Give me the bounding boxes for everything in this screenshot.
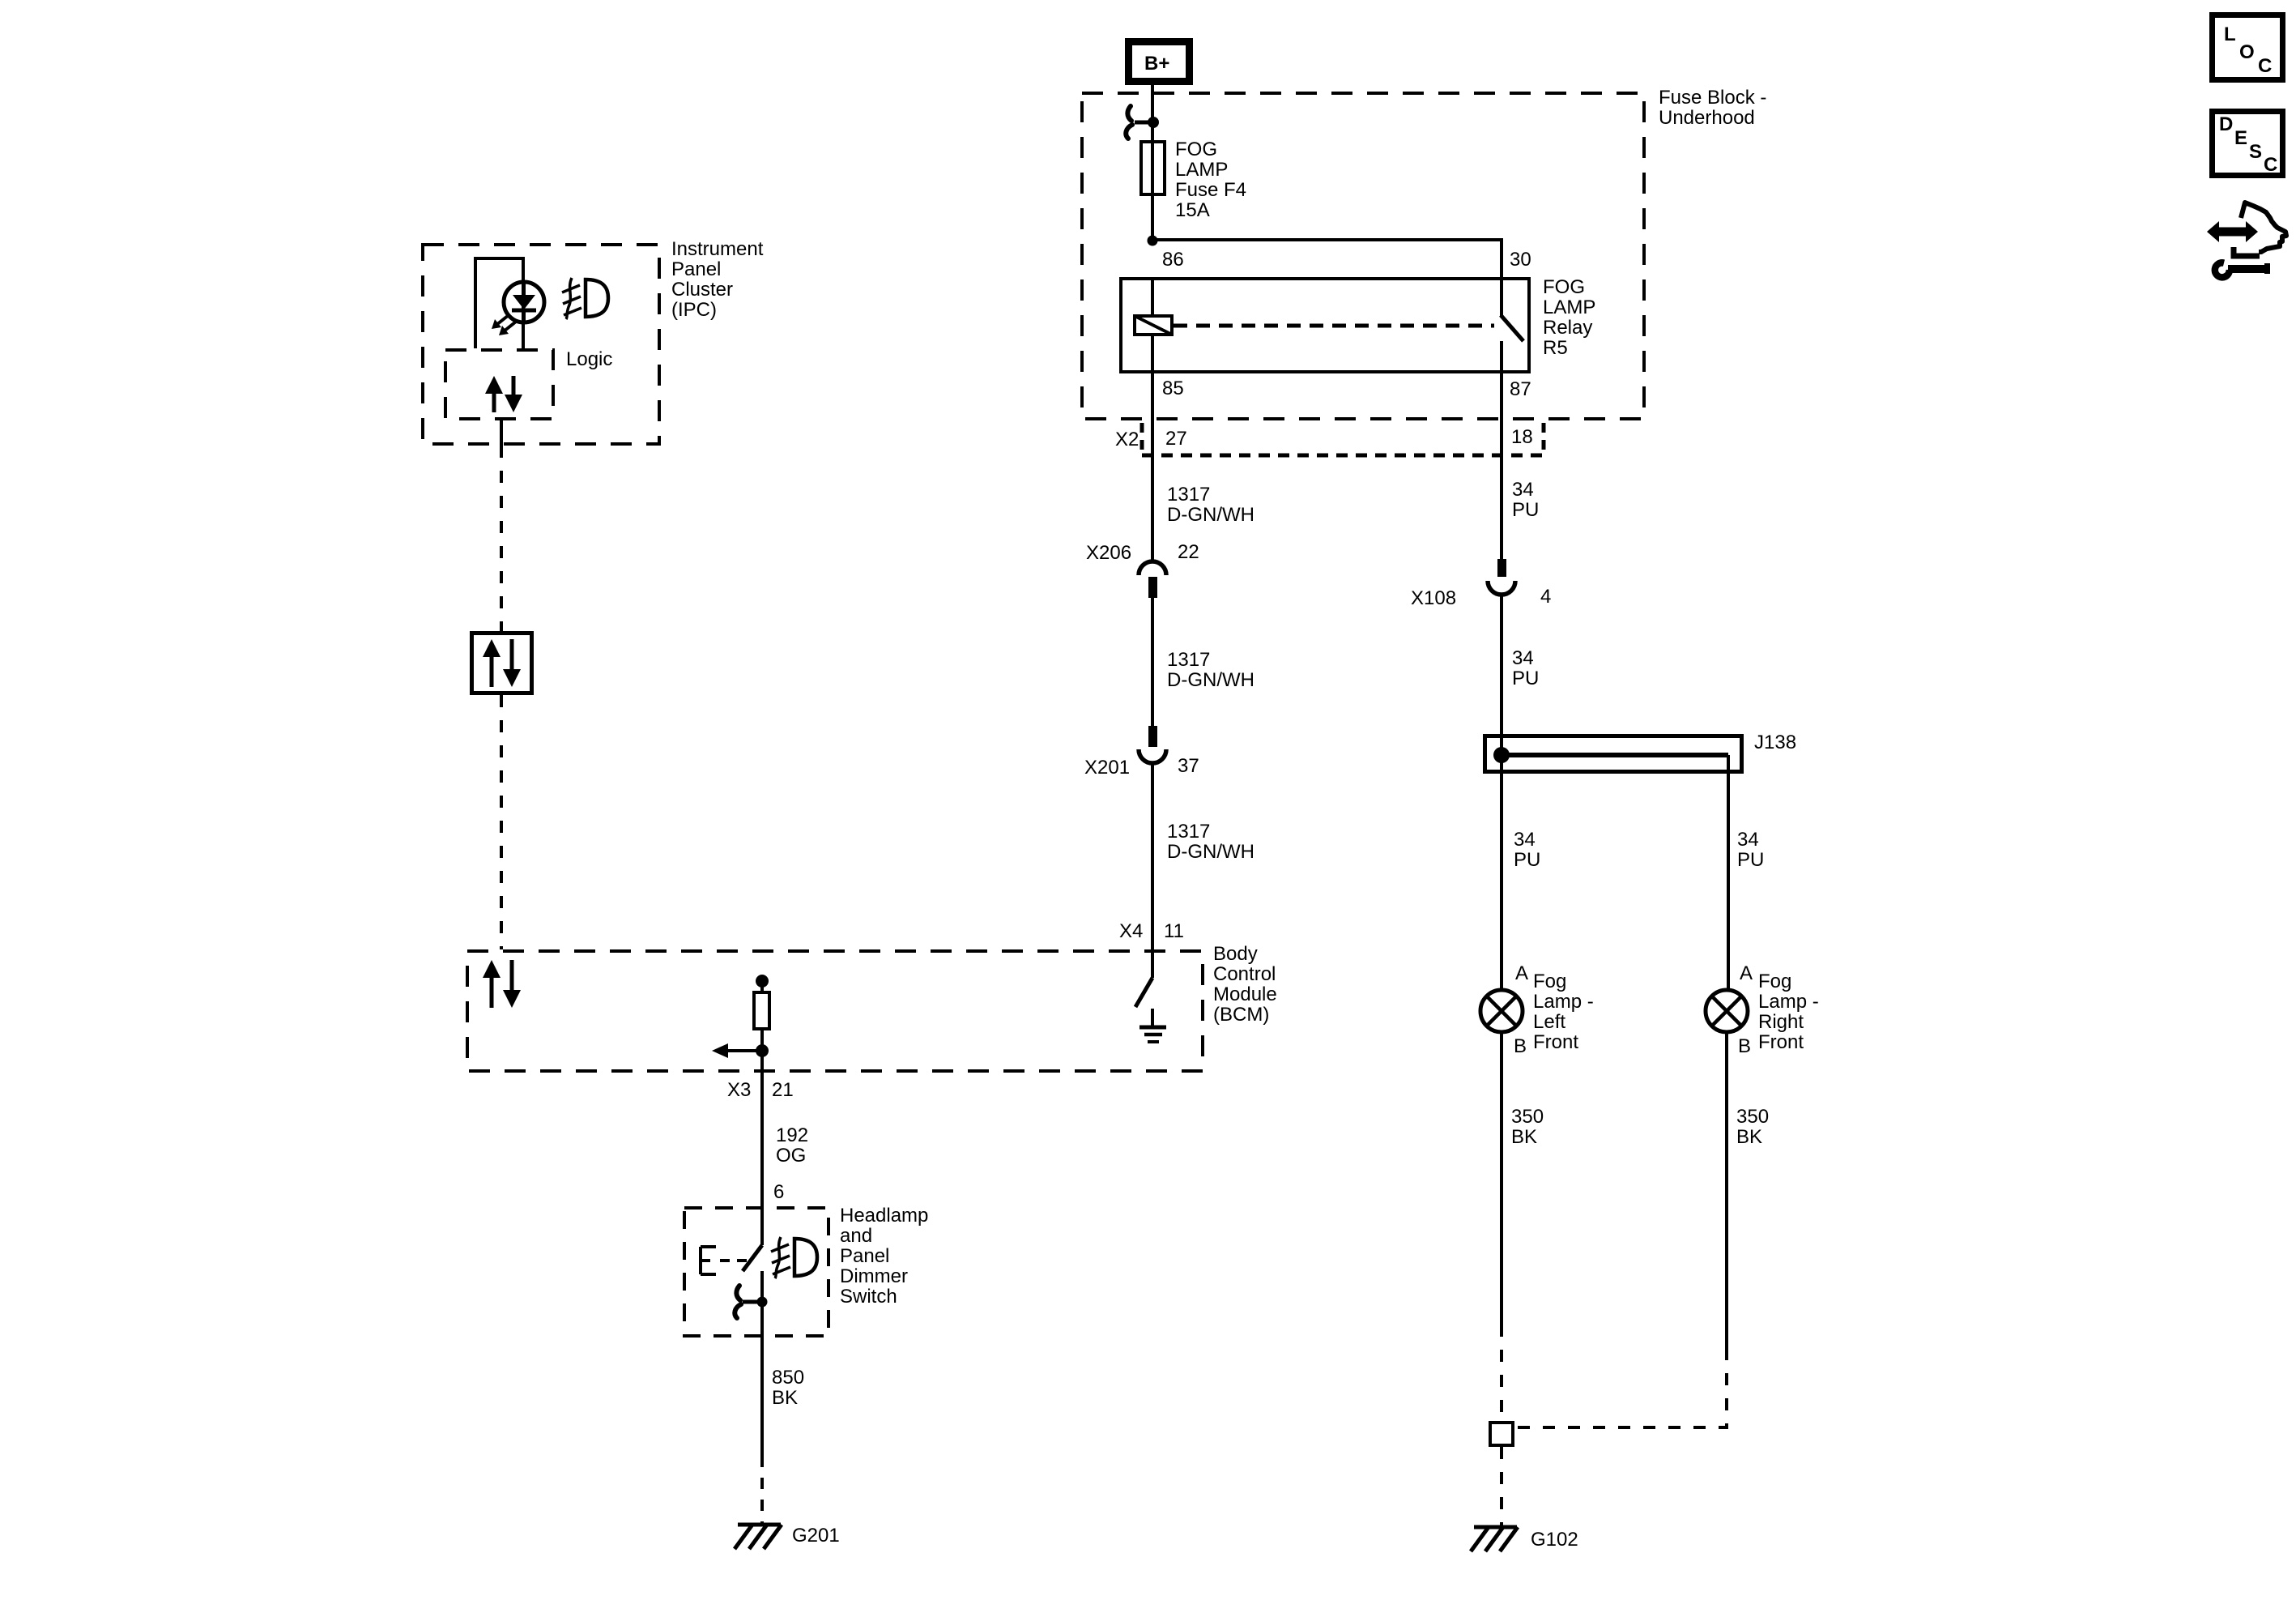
svg-text:Lamp -: Lamp - bbox=[1758, 991, 1819, 1013]
svg-text:Cluster: Cluster bbox=[671, 279, 733, 301]
BCM label bbox=[1213, 943, 1277, 1026]
wire J138 to right fog lamp bbox=[1727, 755, 1730, 991]
svg-text:Front: Front bbox=[1533, 1031, 1578, 1053]
svg-text:BK: BK bbox=[772, 1387, 798, 1409]
wire label 34 PU (1) bbox=[1512, 479, 1539, 521]
serial data arrows inside BCM bbox=[483, 960, 521, 1008]
Fog Lamp - Right Front bbox=[1706, 990, 1748, 1032]
wire label 1317 D-GN/WH (1) bbox=[1167, 484, 1254, 526]
svg-text:OG: OG bbox=[776, 1145, 806, 1167]
svg-text:37: 37 bbox=[1178, 755, 1199, 777]
left fog lamp label bbox=[1533, 971, 1594, 1053]
svg-text:D-GN/WH: D-GN/WH bbox=[1167, 669, 1254, 691]
svg-text:Fog: Fog bbox=[1533, 971, 1566, 992]
wire BCM X3-21 to dimmer switch bbox=[760, 1073, 764, 1245]
svg-text:30: 30 bbox=[1510, 249, 1531, 271]
fuse FOG LAMP Fuse F4 15A bbox=[1141, 140, 1165, 241]
wire to relay pin 30 bbox=[1152, 240, 1502, 279]
svg-text:Instrument: Instrument bbox=[671, 238, 764, 260]
svg-text:FOG: FOG bbox=[1175, 139, 1217, 160]
svg-text:PU: PU bbox=[1514, 849, 1540, 871]
svg-text:X201: X201 bbox=[1084, 757, 1130, 779]
svg-text:D: D bbox=[2219, 113, 2233, 135]
svg-text:Fuse F4: Fuse F4 bbox=[1175, 179, 1246, 201]
svg-text:LAMP: LAMP bbox=[1175, 159, 1228, 181]
LOC navigation box bbox=[2213, 15, 2283, 80]
dimmer switch label bbox=[840, 1205, 928, 1308]
svg-text:Fuse Block -: Fuse Block - bbox=[1659, 87, 1766, 109]
dashed wire to G201 bbox=[760, 1456, 764, 1526]
wire J138 to left fog lamp bbox=[1500, 755, 1503, 991]
svg-text:Panel: Panel bbox=[671, 258, 721, 280]
svg-text:1317: 1317 bbox=[1167, 484, 1210, 506]
svg-text:1317: 1317 bbox=[1167, 821, 1210, 843]
wire dimmer to G201 bbox=[760, 1338, 764, 1456]
svg-text:6: 6 bbox=[773, 1181, 784, 1203]
wire pin 85 to X2-27 bbox=[1151, 372, 1154, 561]
fog lamp indicator icon (IPC) bbox=[562, 278, 608, 319]
DESC navigation box bbox=[2213, 112, 2283, 177]
svg-text:G102: G102 bbox=[1531, 1529, 1578, 1551]
svg-text:27: 27 bbox=[1165, 428, 1187, 450]
dashed wire right lamp to splice bbox=[1514, 1348, 1727, 1427]
svg-text:BK: BK bbox=[1736, 1126, 1762, 1148]
svg-text:C: C bbox=[2258, 55, 2272, 77]
svg-text:L: L bbox=[2224, 23, 2236, 45]
svg-text:Underhood: Underhood bbox=[1659, 107, 1755, 129]
svg-text:Dimmer: Dimmer bbox=[840, 1265, 908, 1287]
Fuse Block - Underhood dashed box bbox=[1082, 93, 1644, 419]
bus tap symbol bbox=[1126, 106, 1159, 139]
svg-text:15A: 15A bbox=[1175, 199, 1210, 221]
wire label 34 PU (left) bbox=[1514, 829, 1540, 871]
wire label 1317 D-GN/WH (2) bbox=[1167, 649, 1254, 691]
relay contact switch bbox=[1501, 279, 1523, 372]
ground G201 bbox=[735, 1525, 782, 1549]
relay label bbox=[1543, 276, 1595, 359]
svg-text:BK: BK bbox=[1511, 1126, 1537, 1148]
svg-text:850: 850 bbox=[772, 1367, 804, 1389]
svg-text:18: 18 bbox=[1511, 426, 1533, 448]
svg-text:D-GN/WH: D-GN/WH bbox=[1167, 504, 1254, 526]
svg-text:X4: X4 bbox=[1119, 920, 1143, 942]
wire label 34 PU (2) bbox=[1512, 647, 1539, 689]
svg-text:X2: X2 bbox=[1115, 429, 1139, 450]
svg-text:11: 11 bbox=[1164, 920, 1184, 942]
Instrument Panel Cluster (IPC) dashed box bbox=[423, 245, 659, 444]
svg-text:87: 87 bbox=[1510, 378, 1531, 400]
svg-text:S: S bbox=[2249, 141, 2262, 163]
svg-text:22: 22 bbox=[1178, 541, 1199, 563]
svg-text:Switch: Switch bbox=[840, 1286, 897, 1308]
svg-text:PU: PU bbox=[1512, 499, 1539, 521]
serial data arrows in connector box bbox=[483, 639, 521, 687]
IPC label bbox=[671, 238, 764, 321]
service navigation icon (car with arrow and wrench) bbox=[2207, 203, 2286, 277]
wire label 1317 D-GN/WH (3) bbox=[1167, 821, 1254, 863]
svg-text:LAMP: LAMP bbox=[1543, 297, 1595, 318]
svg-text:D-GN/WH: D-GN/WH bbox=[1167, 841, 1254, 863]
svg-text:21: 21 bbox=[772, 1079, 794, 1101]
Fuse Block label bbox=[1659, 87, 1766, 129]
svg-text:34: 34 bbox=[1514, 829, 1536, 851]
wire label 850 BK bbox=[772, 1367, 804, 1409]
svg-text:34: 34 bbox=[1737, 829, 1759, 851]
svg-text:Panel: Panel bbox=[840, 1245, 889, 1267]
svg-text:B: B bbox=[1514, 1035, 1527, 1057]
wire label 192 OG bbox=[776, 1124, 808, 1167]
svg-text:350: 350 bbox=[1511, 1106, 1544, 1128]
svg-text:Module: Module bbox=[1213, 983, 1277, 1005]
relay box FOG LAMP Relay R5 bbox=[1121, 279, 1529, 372]
Logic dashed box bbox=[445, 350, 553, 419]
svg-text:34: 34 bbox=[1512, 479, 1534, 501]
BCM signal arrow bbox=[712, 1043, 769, 1058]
svg-text:X108: X108 bbox=[1411, 587, 1456, 609]
svg-text:192: 192 bbox=[776, 1124, 808, 1146]
svg-text:Headlamp: Headlamp bbox=[840, 1205, 928, 1227]
wire Logic box to IPC box edge bbox=[500, 419, 503, 446]
svg-text:Lamp -: Lamp - bbox=[1533, 991, 1594, 1013]
splice junction box bbox=[1490, 1423, 1513, 1445]
svg-text:B: B bbox=[1738, 1035, 1751, 1057]
svg-text:A: A bbox=[1740, 962, 1753, 984]
svg-text:PU: PU bbox=[1737, 849, 1764, 871]
battery feed B+ bbox=[1129, 42, 1190, 82]
wire X201 to BCM X4-11 bbox=[1151, 763, 1154, 978]
Fog Lamp - Left Front bbox=[1480, 990, 1523, 1032]
dashed wire left lamp to splice bbox=[1500, 1325, 1503, 1421]
svg-text:and: and bbox=[840, 1225, 872, 1247]
svg-text:Control: Control bbox=[1213, 963, 1276, 985]
splice pack J138 bbox=[1485, 736, 1742, 772]
wire label 350 BK (right) bbox=[1736, 1106, 1769, 1148]
svg-text:86: 86 bbox=[1162, 249, 1184, 271]
svg-text:X206: X206 bbox=[1086, 542, 1131, 564]
svg-text:X3: X3 bbox=[727, 1079, 751, 1101]
wire left lamp down bbox=[1500, 1032, 1503, 1325]
indicator LED D30 bbox=[492, 282, 544, 335]
serial data link wire (dashed) connector box to BCM bbox=[500, 695, 503, 949]
svg-text:4: 4 bbox=[1540, 586, 1551, 608]
serial data connector box bbox=[472, 634, 532, 693]
svg-text:Left: Left bbox=[1533, 1011, 1565, 1033]
BCM internal switch to ground bbox=[1135, 978, 1166, 1042]
wire right lamp down bbox=[1725, 1032, 1728, 1348]
connector X201 pin 37 bbox=[1139, 726, 1166, 763]
right fog lamp label bbox=[1758, 971, 1819, 1053]
svg-text:Relay: Relay bbox=[1543, 317, 1592, 339]
svg-text:G201: G201 bbox=[792, 1525, 840, 1547]
wire label 34 PU (right) bbox=[1737, 829, 1764, 871]
wire pin 87 to X2-18 bbox=[1500, 372, 1503, 559]
svg-text:85: 85 bbox=[1162, 378, 1184, 399]
svg-text:34: 34 bbox=[1512, 647, 1534, 669]
svg-text:1317: 1317 bbox=[1167, 649, 1210, 671]
ground G102 bbox=[1471, 1527, 1518, 1551]
wire X206 to X201 bbox=[1151, 598, 1154, 726]
connector X206 pin 22 bbox=[1139, 561, 1166, 598]
bus tap symbol (dimmer) bbox=[735, 1286, 767, 1318]
wire label 350 BK (left) bbox=[1511, 1106, 1544, 1148]
junction node below fuse bbox=[1148, 236, 1158, 246]
serial data link wire (dashed) IPC to connector box bbox=[500, 446, 503, 631]
svg-text:E: E bbox=[2234, 127, 2247, 149]
svg-text:FOG: FOG bbox=[1543, 276, 1585, 298]
wire B+ to fuse bbox=[1151, 81, 1154, 142]
E circuit tie symbol bbox=[701, 1247, 753, 1274]
svg-text:B+: B+ bbox=[1144, 53, 1169, 75]
svg-text:Logic: Logic bbox=[566, 348, 612, 370]
svg-text:(BCM): (BCM) bbox=[1213, 1004, 1269, 1026]
Body Control Module dashed box bbox=[467, 951, 1203, 1071]
wire X108 to J138 bbox=[1500, 595, 1503, 755]
svg-text:J138: J138 bbox=[1754, 732, 1796, 753]
svg-text:PU: PU bbox=[1512, 668, 1539, 689]
serial data arrows inside Logic box bbox=[485, 376, 522, 412]
connector X2 labels bbox=[1115, 426, 1533, 450]
Headlamp and Panel Dimmer Switch dashed box bbox=[684, 1208, 829, 1336]
svg-text:Right: Right bbox=[1758, 1011, 1804, 1033]
svg-text:Body: Body bbox=[1213, 943, 1258, 965]
svg-text:Fog: Fog bbox=[1758, 971, 1791, 992]
BCM internal resistor bbox=[754, 975, 769, 1073]
fog lamp icon (dimmer switch) bbox=[771, 1237, 817, 1278]
fuse label bbox=[1175, 139, 1246, 221]
connector X2 brackets bbox=[1142, 423, 1544, 457]
coil-contact linkage (dashed) bbox=[1174, 324, 1494, 328]
dimmer switch blade bbox=[743, 1245, 762, 1338]
connector X108 pin 4 bbox=[1488, 559, 1515, 595]
svg-text:C: C bbox=[2264, 154, 2277, 176]
svg-text:O: O bbox=[2239, 41, 2255, 63]
svg-text:R5: R5 bbox=[1543, 337, 1568, 359]
dashed wire splice to G102 bbox=[1500, 1447, 1503, 1527]
relay coil bbox=[1135, 279, 1172, 372]
svg-text:Front: Front bbox=[1758, 1031, 1804, 1053]
svg-text:A: A bbox=[1515, 962, 1528, 984]
LED holder rectangle bbox=[475, 258, 523, 348]
svg-text:350: 350 bbox=[1736, 1106, 1769, 1128]
svg-text:(IPC): (IPC) bbox=[671, 299, 717, 321]
